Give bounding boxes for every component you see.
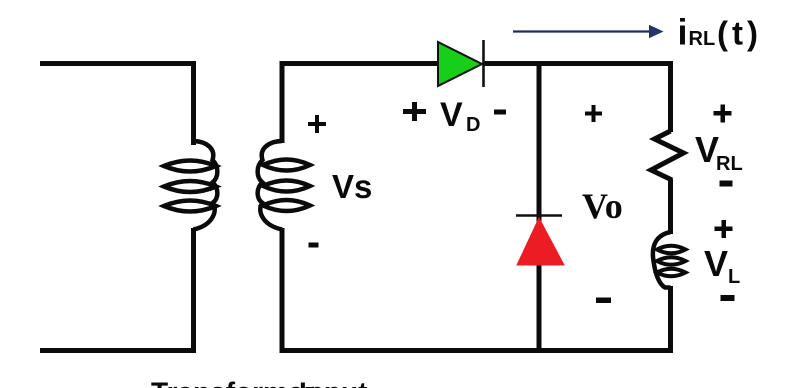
label iRL(t): [678, 12, 762, 53]
resistor RL: [651, 131, 684, 180]
label VRL: [695, 129, 743, 175]
svg-text:Vo: Vo: [582, 186, 623, 226]
diode D2 (red, freewheeling): [516, 216, 564, 266]
wire middle branch: [537, 61, 542, 351]
wire primary bottom: [40, 348, 196, 353]
label VD: [440, 96, 480, 136]
label VL: [704, 243, 740, 288]
wire primary right vertical lower: [191, 228, 196, 351]
svg-text:RL: RL: [689, 28, 716, 50]
minus sign (VRL bottom): [720, 181, 733, 187]
wire secondary left vertical lower: [280, 228, 285, 353]
wire secondary top left segment: [280, 61, 441, 66]
inductor L: [653, 232, 686, 288]
svg-text:Input: Input: [299, 377, 367, 388]
label Vs: [332, 168, 372, 205]
plus sign (VD anode): [403, 102, 426, 121]
svg-text:L: L: [728, 266, 740, 288]
label Vo: [582, 186, 623, 226]
plus sign (VRL top): [714, 105, 732, 123]
transformer secondary winding T1b: [258, 141, 310, 230]
svg-text:V: V: [440, 96, 463, 134]
wire secondary left vertical upper: [280, 61, 285, 143]
plus sign (Vs top): [308, 115, 326, 133]
svg-text:RL: RL: [716, 153, 743, 175]
wire right branch lower: [668, 286, 673, 353]
svg-text:i: i: [678, 12, 688, 53]
minus sign (Vo bottom): [596, 298, 611, 304]
wire right branch middle: [668, 179, 673, 234]
svg-text:V: V: [704, 243, 728, 284]
minus sign (VL bottom): [721, 295, 735, 301]
svg-text:(t): (t): [717, 15, 762, 52]
wire primary right vertical upper: [191, 61, 196, 145]
wire secondary top right segment: [484, 61, 673, 66]
minus sign (VD cathode): [494, 110, 506, 115]
minus sign (Vs bottom): [309, 243, 319, 248]
current arrow iRL(t): [513, 25, 664, 38]
wire primary top: [40, 61, 196, 66]
wire right branch upper: [668, 61, 673, 132]
svg-text:Vs: Vs: [332, 168, 372, 205]
plus sign (Vo top): [585, 105, 602, 122]
caption Transformer (clipped at bottom): [151, 377, 367, 388]
diode D1 (green, series): [438, 40, 484, 87]
svg-text:Transformer: Transformer: [151, 377, 314, 388]
transformer primary winding T1a: [164, 141, 217, 230]
plus sign (VL top): [715, 220, 733, 238]
wire secondary bottom: [280, 348, 674, 353]
svg-text:D: D: [466, 114, 480, 136]
